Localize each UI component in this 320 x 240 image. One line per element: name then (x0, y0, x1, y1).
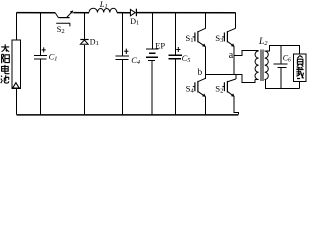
wire right leg between a and S2 (233, 56, 235, 75)
载 (296, 67, 303, 79)
wire C4 branch lower (122, 60, 124, 115)
wire S2 collector stub (235, 75, 237, 80)
svg-text:b: b (198, 67, 203, 77)
负 (297, 56, 303, 67)
switch S2' (55, 11, 73, 17)
capacitor C6 (273, 53, 291, 67)
wire top rail coil to D1 (117, 12, 130, 14)
wire C5 branch lower (175, 59, 177, 114)
solar text char 电 (2, 65, 10, 74)
wire right leg collector S3 (235, 13, 237, 29)
wire C1 branch upper (40, 13, 42, 56)
wire primary bottom lead (255, 79, 258, 81)
wire left leg mid b (205, 47, 207, 79)
wire load box bottom drop (299, 82, 301, 89)
capacitor C1 (34, 47, 58, 62)
wire top rail D1 to right leg (137, 12, 236, 14)
wire right leg mid a (233, 47, 235, 57)
wire EP branch upper (152, 13, 154, 50)
wire D2 branch lower (84, 45, 86, 115)
wire C4 branch upper (122, 13, 124, 56)
inductor L1 (89, 8, 117, 12)
load box (294, 54, 307, 82)
IGBT S3 (222, 28, 235, 46)
svg-text:a: a (229, 50, 234, 61)
transformer core (261, 50, 263, 82)
battery EP (146, 49, 159, 60)
switch S2' label (56, 23, 70, 35)
solar text char 池 (1, 75, 9, 83)
wire left vertical lower (16, 88, 18, 114)
wire left vertical (16, 13, 18, 41)
wire secondary bottom lead (265, 80, 300, 89)
capacitor C5 (169, 47, 191, 64)
diode D1 inline (130, 9, 136, 17)
wire C6 branch lower (280, 68, 282, 89)
IGBT S4 arrowhead (202, 94, 206, 98)
diode D2 vertical (freewheel) (80, 40, 88, 45)
IGBT S4 (193, 78, 206, 96)
wire top rail after switch (73, 12, 89, 14)
wire right leg bottom jog (234, 97, 238, 115)
wire C1 branch lower (40, 60, 42, 115)
IGBT S2 (222, 79, 236, 96)
solar cell label 太阳电池 (1, 44, 10, 83)
wire bottom rail (17, 114, 239, 116)
IGBT S3 arrowhead (231, 43, 235, 47)
solar text char 太 (1, 44, 9, 51)
wire left leg bottom (205, 97, 207, 115)
transformer primary winding (255, 51, 259, 80)
IGBT S2 arrowhead (231, 93, 235, 97)
solar text char 阳 (2, 54, 10, 63)
load label 负载 (296, 56, 303, 79)
wire C6 branch upper (280, 46, 282, 64)
wire left leg collector S1 (205, 13, 207, 29)
IGBT S1 arrowhead (202, 44, 206, 48)
wire node b jog down (242, 75, 255, 83)
wire node b horizontal (206, 74, 243, 76)
wire D2 branch upper (84, 13, 86, 40)
wire secondary top lead (265, 46, 300, 55)
wire EP branch lower (151, 60, 153, 114)
capacitor C4 (116, 49, 141, 66)
wire top rail (17, 12, 56, 14)
switch S2' arrowhead (70, 10, 74, 13)
wire C5 branch upper (175, 13, 177, 55)
transformer secondary winding (265, 51, 269, 80)
solar cell box (12, 40, 20, 88)
wire node a horizontal jog (234, 51, 258, 56)
svg-text:EP: EP (155, 40, 165, 50)
IGBT S1 (193, 28, 206, 46)
